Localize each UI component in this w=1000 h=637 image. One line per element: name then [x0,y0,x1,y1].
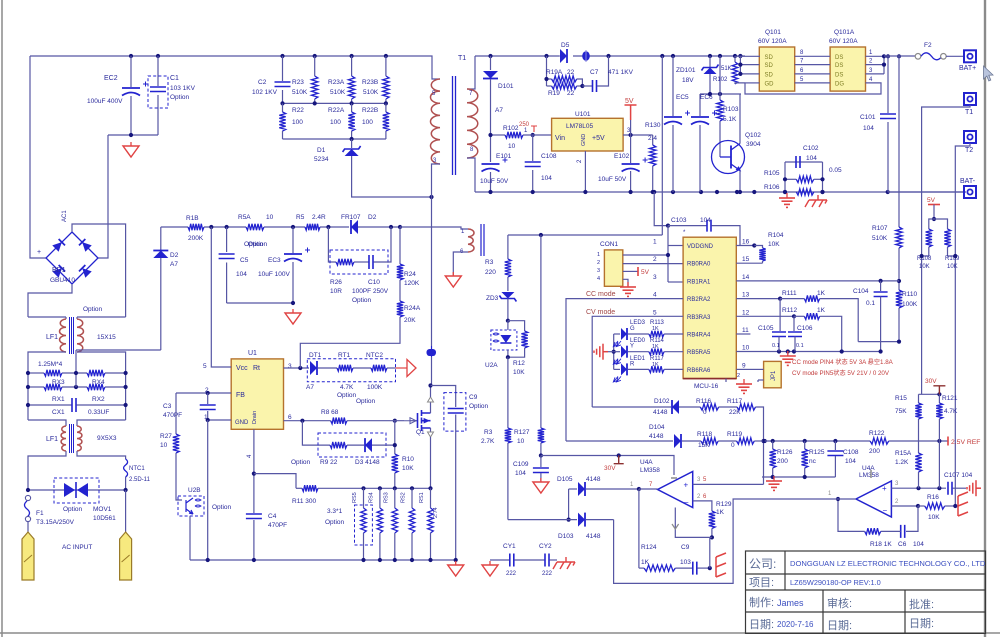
resistor R22B 100 [385,103,387,112]
svg-text:C107 104: C107 104 [944,472,973,479]
svg-text:C9: C9 [681,544,690,551]
svg-text:James: James [777,598,804,608]
svg-text:5V: 5V [625,98,634,105]
svg-text:R109: R109 [945,256,960,262]
wire top-left rail to transformer [30,56,440,79]
capacitor C101 104 [887,56,889,113]
svg-text:CC mode PIN4 状态 5V 3A 悬空1.: CC mode PIN4 状态 5V 3A 悬空1.8A [792,358,894,366]
svg-text:RB0RA0: RB0RA0 [687,262,711,268]
wire U101 output pin3 [623,134,653,136]
svg-text:Q1: Q1 [416,429,425,436]
bridge diode bottom-right [79,265,92,278]
svg-text:R23B: R23B [362,79,378,86]
capacitor C108 104 ref filter [834,441,836,450]
red 5V power symbol at U101 output [625,105,637,120]
svg-text:R122: R122 [869,430,885,437]
svg-text:Option: Option [63,506,83,513]
svg-text:日期:: 日期: [827,619,852,632]
svg-text:G: G [630,326,635,332]
resistor R102 51K pullup [734,56,736,62]
optocoupler U2A LED side [491,330,517,350]
svg-text:R22B: R22B [362,107,378,114]
svg-text:EC3: EC3 [268,257,281,264]
svg-text:R124: R124 [641,544,657,551]
svg-text:200: 200 [777,458,788,465]
wire right op-amp output [836,497,840,501]
svg-text:60V 120A: 60V 120A [758,38,787,45]
svg-text:RB3RA3: RB3RA3 [687,315,711,321]
capacitor C2 102/1KV [282,56,284,81]
ground below R126 [766,476,782,490]
capacitor C109 104 [539,453,543,457]
svg-text:Option: Option [248,241,268,248]
svg-text:10K: 10K [947,264,958,270]
svg-text:R9 22: R9 22 [320,459,338,466]
svg-text:CX1: CX1 [52,409,65,416]
wire right op-amp -input / R16 [891,505,918,507]
svg-text:R5: R5 [296,214,305,221]
svg-text:BAT-: BAT- [960,178,976,185]
wire Q1 drain [430,402,432,413]
AC input terminal left [22,532,34,580]
svg-text:VDDGND: VDDGND [687,244,714,250]
svg-text:LM358: LM358 [859,472,879,479]
svg-text:10uF 100V: 10uF 100V [258,271,290,278]
svg-text:15X15: 15X15 [97,334,116,341]
svg-text:RB1RA1: RB1RA1 [687,279,711,285]
wire MCU pin3 [668,281,683,283]
resistor R22 100 [282,103,284,112]
svg-text:10uF 50V: 10uF 50V [598,176,627,183]
resistor RX4 [87,370,105,376]
svg-text:AC INPUT: AC INPUT [62,544,92,551]
svg-text:R23A: R23A [328,79,345,86]
rectifier diode D101 [490,56,492,70]
resistor R23B 510K [385,56,387,76]
svg-text:R102: R102 [713,77,728,83]
terminal BAT+ [964,50,976,62]
svg-text:10: 10 [266,214,274,221]
svg-text:1: 1 [597,252,600,258]
wires between Q101 and Q101A [795,55,830,57]
svg-text:R121: R121 [942,395,958,402]
svg-text:104: 104 [236,271,247,278]
wire sense row 235 [508,234,662,236]
svg-text:R5A: R5A [238,214,251,221]
svg-text:JP1: JP1 [771,370,777,381]
resistor R127 10 [540,235,542,428]
svg-text:10: 10 [742,345,750,352]
capacitor C4 470PF [246,514,262,519]
svg-text:R18 1K: R18 1K [870,541,892,548]
transformer T1 auxiliary winding [468,229,474,252]
svg-text:2: 2 [597,260,600,266]
battery sense R107 510K [898,56,900,227]
resistor RX2 [87,384,105,390]
sense resistor RS2 [411,488,413,508]
resistor R16 10K [918,505,925,507]
power ground below rail [779,193,795,207]
resistor R112 1K [804,313,819,319]
svg-text:T2: T2 [965,147,973,154]
svg-text:R24A: R24A [404,305,421,312]
svg-text:ZD101: ZD101 [676,67,696,74]
resistor R15A 1.2K [915,453,921,472]
svg-text:100K: 100K [902,301,918,308]
svg-text:DS: DS [835,72,843,78]
svg-text:22: 22 [567,90,575,97]
svg-text:18V: 18V [682,77,694,84]
svg-text:0: 0 [703,409,707,416]
svg-text:LF1: LF1 [46,334,58,341]
wire CON1 pin1 to MCU [623,254,668,256]
resistor R11 300 [302,485,318,491]
resistor R102 10 [505,132,523,138]
capacitor C107 104 [948,482,952,495]
svg-text:RB5RA5: RB5RA5 [687,350,711,356]
svg-text:CY2: CY2 [539,543,552,550]
wire MCU pin12 / R112 [736,315,794,317]
svg-text:RS4: RS4 [369,492,375,503]
resistor R27 10 [175,393,177,434]
svg-text:4.7K: 4.7K [340,384,354,391]
svg-text:1: 1 [653,239,657,246]
svg-text:60V 120A: 60V 120A [829,38,858,45]
svg-text:Option: Option [352,297,372,304]
svg-text:104: 104 [806,155,817,162]
svg-text:R130: R130 [645,122,661,129]
svg-text:DT1: DT1 [309,352,322,359]
svg-text:3904: 3904 [746,141,761,148]
svg-text:D3 4148: D3 4148 [355,459,380,466]
wire D1 to transformer pin3 [352,156,432,197]
svg-text:6: 6 [288,414,292,421]
svg-text:R110: R110 [902,291,917,298]
title block [746,551,986,633]
svg-text:RB6RA6: RB6RA6 [687,368,711,374]
svg-text:R11 300: R11 300 [292,498,316,505]
svg-text:RX2: RX2 [92,396,105,403]
svg-text:200: 200 [869,448,880,455]
capacitor C108 104 [532,135,534,161]
svg-text:R125: R125 [809,449,825,456]
resistor R24 120K [399,227,401,264]
wire BAT- rail to terminal [888,191,964,193]
svg-text:R24: R24 [404,271,416,278]
svg-text:C9: C9 [469,394,478,401]
resistor R3 220 [507,235,509,259]
svg-text:公司:: 公司: [749,557,776,571]
svg-text:10uF 50V: 10uF 50V [480,178,509,185]
svg-text:100uF 400V: 100uF 400V [87,98,123,105]
svg-text:16: 16 [742,239,750,246]
resistor R10 10K [392,454,398,473]
svg-text:RS3: RS3 [384,492,390,503]
wire U1 Vcc pin5 [211,227,231,367]
gate arrow into Q1 [404,418,416,424]
svg-text:104: 104 [541,175,552,182]
svg-text:RB2RA2: RB2RA2 [687,297,711,303]
svg-text:1K: 1K [652,362,659,368]
diode D103 4148 [508,519,577,521]
feedback loop R18 1K / C6 104 [906,506,918,531]
svg-text:1K: 1K [641,559,650,566]
resistor R3 2.7K lower [507,357,509,428]
wire 2.5V ref row [765,440,870,442]
zener ZD101 18V [709,56,711,68]
svg-text:R1B: R1B [186,215,199,222]
wire C5/EC3 bottom [227,302,293,304]
wire C103 net [654,192,668,226]
wire bridge AC1 to line filter [72,224,126,317]
svg-text:10: 10 [517,438,525,445]
svg-text:−: − [883,506,888,515]
resistor R119 0 [737,438,755,444]
svg-text:R112: R112 [782,307,797,314]
svg-text:510K: 510K [872,235,888,242]
wire transformer pin3 drain line [432,164,441,346]
sense divider C102 104 / R105 / R106 0.05 [785,161,823,163]
svg-text:R119: R119 [727,431,742,438]
svg-text:日期:: 日期: [909,617,934,630]
svg-text:SD: SD [765,63,774,69]
svg-text:+: + [882,484,887,493]
svg-text:15: 15 [742,256,750,263]
wire filter bottom row [28,420,66,426]
sideways ground at R16/T2 [958,492,968,516]
svg-text:12: 12 [742,309,750,316]
svg-text:R15: R15 [895,395,907,402]
connector CON1 [604,250,622,286]
svg-text:LED3: LED3 [630,320,646,326]
bridge diode top-left [52,239,65,252]
svg-text:470PF: 470PF [163,412,182,419]
svg-text:4: 4 [597,276,600,282]
svg-text:RS2: RS2 [401,492,407,503]
svg-text:510K: 510K [363,89,379,96]
svg-text:R108: R108 [917,256,932,262]
svg-text:Vin: Vin [555,135,565,142]
wire U1 pin6 gate drive [284,420,331,422]
svg-text:Y: Y [630,344,634,350]
wire RX middle tap [75,350,77,387]
wire R23 middle bus [283,102,386,104]
svg-text:C104: C104 [853,288,869,295]
svg-text:1K: 1K [817,290,826,297]
wire F2 to BAT+ [946,55,964,57]
transformer T1 core [453,76,456,175]
svg-text:2.5V REF: 2.5V REF [951,439,980,446]
svg-text:BD1: BD1 [52,267,66,274]
svg-text:R118: R118 [697,431,712,438]
resistor RT1 4.7K [337,365,353,371]
svg-text:20K: 20K [404,317,416,324]
terminal T2 [964,131,976,143]
svg-text:0.05: 0.05 [829,167,842,174]
capacitor CX1 0.33UF [28,404,72,406]
wire pin3 to R24A [300,343,400,368]
wire pin4 branch to R11 [254,474,296,489]
svg-text:D102: D102 [654,398,670,405]
wire MCU pin11 stub [736,333,750,335]
svg-text:2020-7-16: 2020-7-16 [777,620,814,629]
sense resistor RS4 [379,488,381,508]
svg-text:−: − [684,498,689,507]
svg-text:NTC1: NTC1 [129,466,145,472]
svg-text:C1: C1 [170,75,179,82]
svg-text:R117: R117 [727,398,742,405]
wire Q1 source [430,428,432,432]
RC snubber R26 10R / C10 100PF 250V (option) [328,227,336,262]
svg-text:CON1: CON1 [600,241,618,248]
svg-text:4148: 4148 [653,409,668,416]
wire D105 left to D103 row [568,489,570,520]
svg-text:C102: C102 [803,145,819,152]
secondary ground rail [475,191,966,193]
common-mode choke LF1 15X15 [28,316,66,318]
svg-text:510K: 510K [292,89,308,96]
resistor R124 1K [639,567,644,569]
wire D105 to op-amp output node [637,487,641,491]
svg-text:2.74: 2.74 [433,507,439,518]
wire T2 sense line [955,143,970,506]
wire T1 sense line [922,105,970,394]
svg-text:0.1: 0.1 [796,343,804,349]
common-mode choke LF1 9X5X3 [61,426,66,451]
capacitor C9 103 [675,567,693,569]
svg-text:R27: R27 [160,433,172,440]
LED indicator block [613,334,615,369]
fuse F1 T3.15A/250V [25,495,30,500]
svg-text:RT1: RT1 [338,352,351,359]
svg-text:AC1: AC1 [62,210,68,222]
svg-text:R3: R3 [484,429,493,436]
svg-text:2: 2 [653,256,657,263]
svg-text:R106: R106 [764,184,780,191]
svg-text:Q102: Q102 [745,132,761,139]
diode DT1 A7 [310,361,317,375]
wire EC2 bottom to bridge + corner [98,135,108,258]
svg-text:EC2: EC2 [104,75,118,82]
wire op-amp pin4 ground path [675,508,712,538]
svg-text:4.7K: 4.7K [944,408,958,415]
ground below EC3 [285,309,301,324]
svg-text:13: 13 [742,292,750,299]
gate node bus y94 [700,93,741,95]
wire ref filter ground bus [762,476,835,478]
diode D102 4148 [592,406,671,408]
wire D2 to LF1 tap [76,349,161,351]
wire MCU pin15 [736,262,762,264]
svg-text:LED1: LED1 [630,356,646,362]
svg-text:471 1KV: 471 1KV [608,69,634,76]
svg-text:R22A: R22A [328,107,345,114]
svg-text:LZ65W290180-OP REV:1.0: LZ65W290180-OP REV:1.0 [790,578,881,587]
wire MCU pin5 CV mode [592,316,683,407]
wire below LF1 second [28,451,66,490]
wire MCU pin16 / R104 [736,245,754,247]
diode D2 A7 [160,227,162,250]
LED3 green [614,333,620,335]
svg-text:0.1: 0.1 [772,343,780,349]
wire 30V rail [541,456,674,476]
svg-text:DONGGUAN LZ ELECTRONIC TECHNOL: DONGGUAN LZ ELECTRONIC TECHNOLOGY CO., L… [790,559,986,568]
red ground for LEDs [608,351,614,353]
svg-text:22K: 22K [729,409,741,416]
svg-text:100: 100 [292,119,303,126]
svg-text:100: 100 [330,119,341,126]
svg-text:C7: C7 [590,69,599,76]
svg-text:R22: R22 [292,107,304,114]
svg-text:5.1K: 5.1K [723,116,737,123]
wire MCU pin14 battery sense [736,280,899,282]
snubber R19A 22 / R19 22 / C7 471 1KV [546,56,548,86]
svg-text:R10: R10 [402,456,414,463]
svg-text:Option: Option [469,403,489,410]
resistor R130 2.4 [652,135,654,145]
resistor R5A 10 (option) [246,224,264,230]
ground stub CY1 [482,561,498,576]
svg-text:项目:: 项目: [749,576,774,589]
wires Q101 left stubs [735,55,760,57]
svg-text:4148: 4148 [586,476,601,483]
svg-text:MCU-16: MCU-16 [694,383,719,390]
svg-text:U4A: U4A [640,459,653,466]
svg-text:R116: R116 [696,398,711,405]
svg-text:14: 14 [742,274,750,281]
svg-text:30V: 30V [925,378,937,385]
svg-text:C105: C105 [758,325,774,332]
resistor R105 [785,178,796,180]
svg-text:T3.15A/250V: T3.15A/250V [36,519,75,526]
svg-text:CV mode PIN5状态 5V 21V / 0 20: CV mode PIN5状态 5V 21V / 0 20V [792,369,890,377]
svg-text:+: + [684,481,689,490]
svg-text:R129: R129 [716,501,732,508]
svg-text:LED0: LED0 [630,338,646,344]
ground below EC2 [123,142,139,157]
svg-text:104: 104 [913,541,924,548]
capacitor EC2 [130,56,132,87]
MOSFET Q1 [418,410,431,431]
wire MCU pin1 net [667,226,669,282]
svg-text:222: 222 [542,571,553,577]
svg-text:1.25M*4: 1.25M*4 [38,361,63,368]
svg-text:9: 9 [742,362,746,369]
svg-text:C108: C108 [541,153,557,160]
wire CON1 pin2 to MCU pin2 [623,263,683,265]
capacitor EC5 [672,56,674,116]
jumper JP1 [764,361,782,387]
svg-text:D2: D2 [170,252,179,259]
ground below CON1 [620,282,636,296]
wire U1 FB pin2 [176,392,231,394]
sense resistor RS3 [394,488,396,508]
wire U1 pin3 [284,367,310,369]
svg-text:R19: R19 [548,90,560,97]
svg-text:Option: Option [325,519,345,526]
svg-text:nc: nc [809,458,817,465]
svg-text:10K: 10K [402,465,414,472]
bridge diode bottom-left [52,265,65,278]
capacitor C103 104 [668,225,707,227]
svg-text:E101: E101 [496,153,512,160]
svg-text:R26: R26 [330,279,342,286]
svg-text:Rt: Rt [253,365,260,372]
svg-text:D5: D5 [561,42,570,49]
svg-text:100: 100 [362,119,373,126]
wire EC2/C1 bottom [108,134,158,136]
svg-text:F2: F2 [924,42,932,49]
